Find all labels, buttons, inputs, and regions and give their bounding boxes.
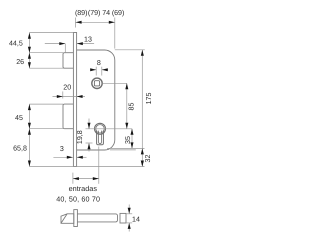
body bottom ext (110, 149, 136, 151)
deadbolt box (63, 104, 73, 129)
arrowheads 19,8 (88, 123, 91, 129)
follower centerline (102, 82, 126, 84)
dim 19,8 tails + exts (88, 119, 90, 129)
cylinder outer circle (95, 123, 106, 134)
cylinder inner stem (99, 131, 102, 144)
dim (89)(79)74(69): line + left tick + right ext (76, 21, 115, 23)
arrowheads 175 (141, 50, 144, 56)
arrowheads top dim (76, 21, 82, 24)
svg-text:13: 13 (84, 36, 92, 44)
svg-text:19,8: 19,8 (76, 130, 84, 144)
svg-text:8: 8 (97, 59, 101, 67)
svg-text:40, 50, 60 70: 40, 50, 60 70 (56, 194, 100, 203)
dim 20 (53, 96, 77, 98)
side view: latch wedge (61, 214, 74, 224)
entradas dim (73, 178, 99, 180)
bottom long ext line (29, 166, 144, 168)
lock body outline (77, 50, 115, 150)
svg-text:32: 32 (144, 155, 152, 163)
side view: body bar (77, 214, 117, 222)
arrowheads 44,5 / 26 chain (28, 33, 31, 39)
dim 85 line (126, 83, 128, 129)
svg-text:65,8: 65,8 (13, 145, 27, 153)
svg-text:44,5: 44,5 (9, 40, 23, 48)
dim 8 ticks + tails (95, 67, 97, 76)
dim 3 tails (53, 156, 72, 158)
dim 35 line (131, 129, 133, 149)
side view: end cap (120, 213, 126, 223)
arrowheads 35 (131, 129, 134, 135)
svg-text:entradas: entradas (69, 184, 98, 193)
arrowheads 20 (57, 95, 63, 98)
arrowheads 3 (67, 156, 73, 159)
cylinder outer stem (97, 131, 104, 145)
dim 14 tails + exts (128, 205, 130, 214)
faceplate (73, 33, 76, 167)
svg-text:(89) (79) 74 (69): (89) (79) 74 (69) (75, 9, 124, 17)
arrowheads entradas (73, 177, 79, 180)
arrowheads 45 / 65,8 chain (28, 104, 31, 110)
dim 13: tails + tick (45, 43, 66, 45)
dim col 44,5 / 26 (28, 33, 30, 69)
latch bolt box (63, 53, 73, 68)
svg-text:45: 45 (15, 114, 23, 122)
arrowheads 8 (90, 68, 96, 71)
svg-text:20: 20 (63, 84, 71, 92)
dim col 175 / 32 (141, 50, 143, 167)
svg-text:85: 85 (128, 103, 136, 111)
cylinder inner circle (96, 125, 104, 133)
follower circle (92, 78, 102, 88)
arrowheads 32 (141, 148, 144, 154)
side view: faceplate section (74, 210, 78, 227)
arrowheads 14 (128, 208, 131, 214)
follower square (94, 81, 99, 86)
dim col 45 / 65,8 (28, 104, 30, 166)
svg-text:175: 175 (145, 93, 153, 105)
arrowheads 13 (59, 42, 65, 45)
svg-text:35: 35 (124, 136, 132, 144)
cylinder centerline (86, 128, 133, 130)
svg-text:14: 14 (132, 216, 140, 224)
svg-text:3: 3 (60, 145, 64, 153)
arrowheads 85 (125, 83, 128, 89)
svg-text:26: 26 (16, 58, 24, 66)
